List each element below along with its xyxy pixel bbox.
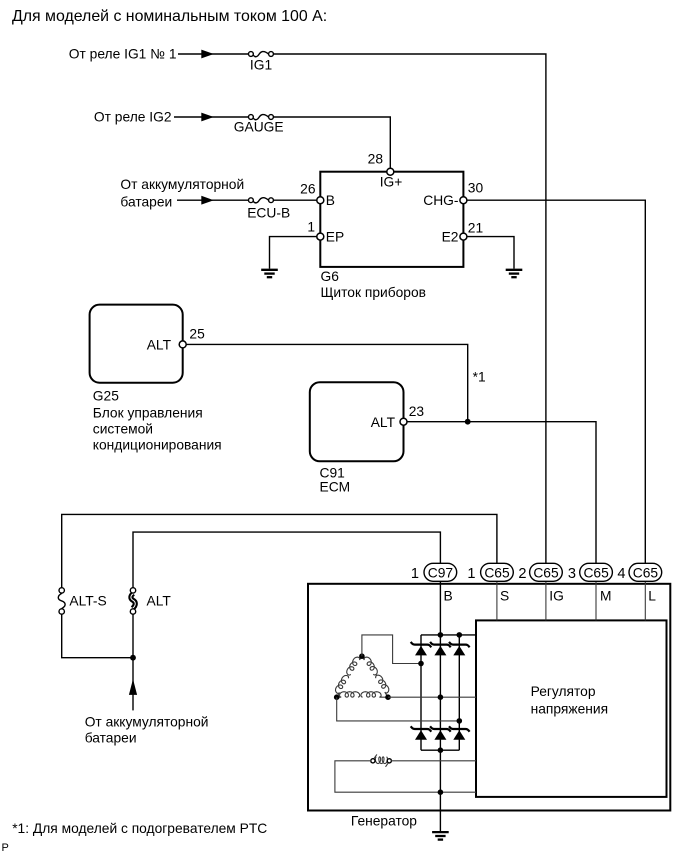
wire ALT(25) right and down to junction bbox=[186, 344, 468, 421]
svg-text:ALT: ALT bbox=[371, 415, 396, 430]
terminal ALT circle (C91) bbox=[400, 418, 407, 425]
svg-text:C65: C65 bbox=[633, 565, 659, 580]
wire EP to ground bbox=[270, 237, 317, 269]
delta vertex dot bottom-right bbox=[385, 694, 391, 700]
svg-text:IG1: IG1 bbox=[250, 58, 272, 73]
arrow right on GAUGE wire bbox=[201, 113, 214, 122]
svg-text:2: 2 bbox=[518, 566, 526, 582]
svg-text:1: 1 bbox=[411, 566, 419, 582]
wire ECU-B fuse to pin B bbox=[273, 199, 316, 201]
junction dot phase2-d2 bbox=[438, 694, 444, 700]
wire ALT bottom to junction and below arrow bbox=[132, 614, 134, 710]
fuse GAUGE bbox=[249, 114, 274, 119]
svg-text:C65: C65 bbox=[533, 565, 559, 580]
svg-text:От реле IG1 № 1: От реле IG1 № 1 bbox=[69, 47, 177, 62]
ECM box C91 bbox=[310, 382, 404, 461]
svg-text:L: L bbox=[648, 589, 656, 604]
connector C65 oval (S) bbox=[481, 563, 514, 581]
svg-text:G6: G6 bbox=[321, 269, 340, 284]
fuse ALT-S bbox=[58, 588, 65, 615]
connector C65 oval (L) bbox=[629, 563, 662, 581]
junction dot *1 bbox=[465, 419, 471, 425]
svg-text:25: 25 bbox=[189, 327, 205, 342]
wire fusible top line to S connector bbox=[62, 514, 497, 587]
stator delta winding edge 2 (top to bottom-right) bbox=[362, 656, 389, 697]
arrow right on ECU-B wire bbox=[201, 196, 214, 205]
svg-text:CHG-: CHG- bbox=[423, 193, 458, 208]
svg-text:напряжения: напряжения bbox=[531, 702, 608, 717]
terminal CHG- circle bbox=[460, 197, 467, 204]
svg-text:Генератор: Генератор bbox=[351, 814, 417, 829]
wire rotor left to ground line bbox=[335, 761, 476, 792]
junction dot bottombus-d2 bbox=[438, 747, 444, 753]
svg-text:E2: E2 bbox=[442, 230, 459, 245]
svg-text:1: 1 bbox=[467, 566, 475, 582]
svg-text:От аккумуляторной: От аккумуляторной bbox=[85, 715, 209, 730]
svg-text:C97: C97 bbox=[428, 565, 453, 580]
combination meter box G6 bbox=[320, 172, 463, 267]
svg-text:C65: C65 bbox=[583, 565, 609, 580]
delta vertex dot bottom-left bbox=[334, 694, 340, 700]
wire ECU-B row bbox=[177, 199, 249, 201]
wire phase2: bottom-right vertex to regulator bbox=[388, 696, 476, 698]
wire CHG- to L connector bbox=[467, 200, 645, 563]
arrow right on IG1 wire bbox=[201, 50, 214, 59]
svg-text:26: 26 bbox=[300, 182, 316, 197]
svg-text:21: 21 bbox=[468, 221, 483, 236]
svg-text:C65: C65 bbox=[484, 565, 510, 580]
svg-text:B: B bbox=[444, 589, 453, 604]
svg-text:IG: IG bbox=[549, 589, 564, 604]
junction dot ground-line-B bbox=[438, 789, 444, 795]
svg-text:4: 4 bbox=[617, 566, 625, 582]
diode D6 bottom bbox=[449, 726, 470, 740]
stator delta winding edge 1 (top to bottom-left) bbox=[336, 656, 362, 697]
wire IG1 row from label to fuse bbox=[178, 53, 249, 55]
wire phase1: top vertex to diode string 1 bbox=[362, 635, 421, 664]
svg-text:ECU-B: ECU-B bbox=[247, 206, 290, 221]
svg-text:23: 23 bbox=[409, 404, 425, 419]
svg-text:системой: системой bbox=[93, 422, 153, 437]
diode D2 top bbox=[430, 642, 451, 656]
ground (generator) bbox=[432, 832, 449, 840]
ground (EP) bbox=[261, 270, 278, 277]
svg-text:кондиционирования: кондиционирования bbox=[93, 438, 222, 453]
svg-text:P: P bbox=[2, 842, 9, 854]
diode string 3 vertical bbox=[458, 635, 460, 750]
connector C65 oval (IG) bbox=[530, 563, 563, 581]
wire B main vertical through rectifier to ground bbox=[439, 563, 441, 831]
fuse IG1 bbox=[249, 51, 274, 56]
wire ALT-S bottom to junction bbox=[62, 614, 133, 658]
svg-text:ALT-S: ALT-S bbox=[69, 594, 106, 609]
stub L to regulator bbox=[644, 582, 646, 621]
svg-text:G25: G25 bbox=[93, 389, 119, 404]
connector C65 oval (M) bbox=[580, 563, 613, 581]
voltage regulator box bbox=[476, 620, 667, 797]
wire IG1 to right and down to connector C65 pin2 bbox=[273, 54, 546, 563]
terminal EP circle bbox=[317, 233, 324, 240]
junction dot phase1-d1 bbox=[418, 661, 424, 667]
rectifier top bus bbox=[421, 634, 476, 636]
svg-text:ECM: ECM bbox=[320, 480, 351, 495]
svg-text:30: 30 bbox=[468, 181, 484, 196]
svg-text:батареи: батареи bbox=[120, 195, 172, 210]
wire phase3: bottom-left vertex to diode string 3 bbox=[337, 697, 460, 721]
diode D1 top bbox=[411, 642, 432, 656]
svg-text:1: 1 bbox=[307, 220, 315, 235]
svg-text:Блок управления: Блок управления bbox=[93, 406, 203, 421]
junction dot bus-d3 bbox=[457, 632, 463, 638]
junction dot bus-d2 bbox=[438, 632, 444, 638]
stator delta winding edge 3 (bottom) bbox=[337, 692, 388, 698]
diode D4 bottom bbox=[411, 726, 432, 740]
stub IG to regulator bbox=[545, 582, 547, 621]
svg-text:IG+: IG+ bbox=[380, 175, 403, 190]
svg-text:28: 28 bbox=[368, 152, 384, 167]
terminal B circle bbox=[317, 197, 324, 204]
terminal ALT circle (G25) bbox=[179, 341, 186, 348]
svg-text:*1: Для моделей с подогревател: *1: Для моделей с подогревателем PTC bbox=[12, 821, 267, 836]
junction dot phase3-d3 bbox=[457, 718, 463, 724]
generator box bbox=[308, 584, 670, 811]
svg-text:3: 3 bbox=[568, 566, 576, 582]
svg-text:Щиток приборов: Щиток приборов bbox=[321, 285, 426, 300]
wire GAUGE to IG+ pin bbox=[273, 117, 390, 168]
svg-text:ALT: ALT bbox=[147, 594, 172, 609]
rotor field coil bbox=[371, 754, 392, 766]
svg-text:C91: C91 bbox=[320, 466, 345, 481]
svg-text:S: S bbox=[500, 589, 509, 604]
fusible link ALT bbox=[130, 588, 135, 615]
wire fusible link ALT top line to B connector bbox=[133, 532, 440, 587]
svg-text:Регулятор: Регулятор bbox=[531, 684, 596, 699]
svg-text:батареи: батареи bbox=[85, 731, 137, 746]
wire GAUGE row bbox=[174, 116, 249, 118]
svg-text:*1: *1 bbox=[473, 370, 486, 385]
svg-text:B: B bbox=[326, 193, 335, 208]
svg-text:GAUGE: GAUGE bbox=[234, 120, 284, 135]
wire rotor right to regulator bbox=[391, 760, 476, 762]
diode D3 top bbox=[449, 642, 470, 656]
svg-text:Для моделей с номинальным токо: Для моделей с номинальным током 100 А: bbox=[12, 8, 327, 25]
svg-text:ALT: ALT bbox=[147, 338, 172, 353]
ground (E2) bbox=[506, 270, 523, 277]
junction dot battery bbox=[130, 655, 136, 661]
terminal IG+ circle bbox=[387, 168, 394, 175]
delta vertex dot top bbox=[359, 653, 365, 659]
wire E2 to ground bbox=[467, 237, 514, 269]
terminal E2 circle bbox=[460, 233, 467, 240]
connector C97 oval bbox=[424, 563, 457, 581]
svg-text:M: M bbox=[600, 589, 612, 604]
rectifier bottom bus bbox=[421, 749, 459, 751]
stub M to regulator bbox=[595, 582, 597, 621]
diode string 1 vertical bbox=[420, 635, 422, 750]
svg-text:От аккумуляторной: От аккумуляторной bbox=[120, 177, 244, 192]
svg-text:От реле IG2: От реле IG2 bbox=[94, 110, 172, 125]
stub S to regulator bbox=[496, 582, 498, 621]
svg-text:EP: EP bbox=[326, 230, 344, 245]
A/C amplifier box G25 bbox=[90, 305, 183, 383]
wire ALT(23) to M connector bbox=[407, 422, 596, 564]
arrow up from battery bbox=[129, 679, 137, 695]
diode D5 bottom bbox=[430, 726, 451, 740]
fuse ECU-B bbox=[249, 198, 274, 203]
